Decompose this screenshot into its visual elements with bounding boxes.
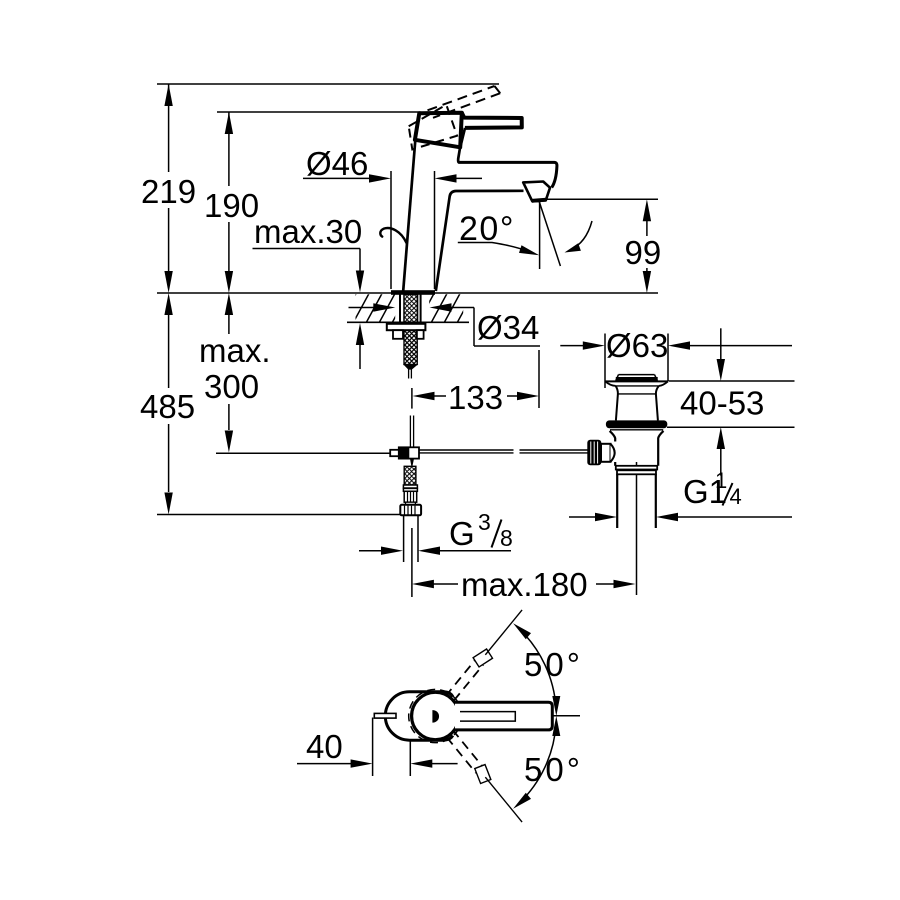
- counter slab with hatching: [301, 294, 499, 324]
- pop-up rod knob (hook): [380, 228, 406, 243]
- waste rod knurled knob: [587, 440, 614, 466]
- dimension 133 (faucet to drain offset): [413, 350, 540, 416]
- hose centerline lower: [411, 528, 413, 597]
- svg-text:8: 8: [500, 525, 513, 551]
- dimension 20 degrees (spout angle): [458, 200, 561, 269]
- svg-text:300: 300: [204, 368, 259, 405]
- dimension 50 degrees upper: [513, 623, 583, 716]
- svg-text:max.180: max.180: [461, 566, 588, 603]
- dimension G1 1/4 (waste thread): [569, 468, 792, 521]
- svg-text:Ø63: Ø63: [606, 327, 668, 364]
- dimension 40 (pin offset): [297, 718, 458, 777]
- svg-text:max.: max.: [199, 332, 271, 369]
- horizontal pop-up rod: [419, 450, 588, 453]
- faucet body outline: [403, 128, 557, 291]
- svg-text:Ø46: Ø46: [306, 145, 368, 182]
- svg-text:50°: 50°: [524, 751, 583, 788]
- countertop reference line (y=293): [157, 292, 658, 294]
- dimension 485 (vertical, hose length): [140, 293, 195, 515]
- svg-text:40: 40: [306, 728, 343, 765]
- svg-text:485: 485: [140, 388, 195, 425]
- hose centerline upper: [411, 388, 413, 409]
- faucet base plate: [391, 290, 435, 295]
- dimension diameter 63 (waste plug): [560, 327, 792, 388]
- pop-up rod reference line (y=453.2): [216, 452, 391, 454]
- svg-text:40-53: 40-53: [680, 385, 764, 422]
- dimension max.300 (vertical, counter to rod): [199, 293, 271, 453]
- braided hose upper with crosshatch: [404, 295, 417, 379]
- supply tube end: [404, 515, 418, 562]
- dimension max.30 (counter thickness): [253, 213, 365, 369]
- dimension 99 (vertical, spout to counter): [625, 199, 662, 293]
- dimension extension line 190 top (y=112): [217, 111, 421, 113]
- svg-text:190: 190: [204, 187, 259, 224]
- top view lever raised +50 (dashed): [443, 605, 528, 704]
- spout height reference line (y=199.3): [539, 198, 658, 200]
- svg-text:3: 3: [478, 509, 491, 535]
- top view lever lowered -50 (dashed): [443, 728, 528, 827]
- braided hose over nut: [404, 330, 417, 364]
- svg-text:99: 99: [625, 234, 662, 271]
- top view lever (solid): [455, 702, 552, 730]
- svg-text:G: G: [449, 515, 475, 552]
- handle cap raised (dashed): [409, 105, 457, 150]
- svg-text:219: 219: [141, 173, 196, 210]
- mounting washer and nut: [387, 324, 426, 339]
- top view centerline stub: [552, 715, 580, 717]
- G3/8 connection nut: [400, 505, 421, 516]
- lever handle raised (dashed): [428, 86, 501, 118]
- threaded shank in hole: [400, 295, 421, 323]
- svg-text:133: 133: [448, 379, 503, 416]
- pop-up rod vertical: [410, 416, 413, 448]
- waste centerline: [636, 462, 638, 595]
- top view pin: [374, 713, 396, 718]
- lever handle (solid): [462, 113, 522, 128]
- svg-text:4: 4: [730, 484, 742, 509]
- waste valve body: [610, 430, 664, 475]
- spout swivel curved arrow: [565, 221, 593, 253]
- svg-text:Ø34: Ø34: [477, 309, 539, 346]
- handle cap (solid): [415, 113, 462, 148]
- bottom reference line 485 (y=514.5): [157, 514, 421, 516]
- dimension 50 degrees lower: [513, 716, 583, 809]
- svg-text:50°: 50°: [524, 646, 583, 683]
- dimension 190 (vertical, spout height): [204, 112, 259, 293]
- top view cap circle: [412, 692, 459, 739]
- top view center mark: [433, 711, 439, 723]
- waste plug head: [605, 375, 668, 421]
- svg-text:max.30: max.30: [254, 213, 362, 250]
- dimension diameter 34 (mounting hole): [349, 303, 541, 346]
- top view handle base capsule: [385, 692, 452, 740]
- svg-text:1: 1: [715, 468, 727, 493]
- dimension G 3/8 (supply hose thread): [359, 509, 513, 555]
- dimension 219 (vertical, overall height): [141, 84, 196, 293]
- dimension diameter 46 (faucet base): [303, 145, 482, 289]
- rod clamp block: [390, 447, 419, 467]
- dimension extension line top (219 top, y=84): [157, 83, 499, 85]
- dimension 40-53 (deck thickness for waste): [667, 328, 795, 475]
- hose fitting: [403, 466, 417, 505]
- waste tailpipe: [617, 474, 656, 528]
- aerator tip: [523, 182, 550, 202]
- dimension max.180 (hose to waste distance): [412, 566, 636, 603]
- top view dashed circle: [409, 689, 462, 742]
- waste o-ring band: [606, 420, 667, 428]
